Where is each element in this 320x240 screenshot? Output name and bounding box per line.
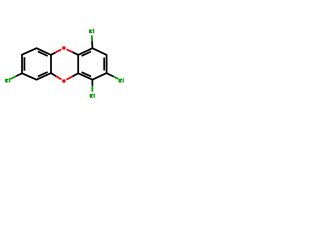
bond C-Cl bottom carbon half [91,80,93,86]
left ring double bond inner line (top-right edge) [38,51,48,56]
right ring double bond inner line (top-left edge) [82,51,91,55]
atom label Cl (right chlorine) [119,78,124,82]
bond C-Cl bottom hetero half [91,86,93,92]
bond C-Cl right hetero half [114,77,119,79]
right ring double bond inner line (right edge) [103,58,105,71]
bond C-O bottom left carbon half [51,73,56,76]
bond C-O top right hetero half [67,49,73,52]
bond C-Cl right carbon half [107,73,114,77]
molecule: tetrachlorodibenzo-p-dioxin structure diagram [0,0,130,130]
left ring double bond inner line (left edge) [23,57,25,70]
bond C-O bottom right hetero half [66,76,72,79]
atom label Cl (left ring chlorine) [5,78,10,82]
atom label O (top oxygen) [62,46,65,49]
bond C-Cl left hetero half [10,76,16,79]
bond C-Cl top carbon half [91,41,93,48]
atom label Cl (bottom chlorine) [90,93,95,97]
left benzene ring outline (bonds C6-C6a-C10a-C9-C8-C7) [22,48,51,79]
atom label O (bottom oxygen) [62,79,65,82]
bond C-O bottom left hetero half [56,76,61,79]
bond C-Cl top hetero half [91,35,93,41]
atom label Cl (top chlorine) [89,29,94,33]
bond C-O top left carbon half [51,53,55,55]
bond C-O bottom right carbon half [72,73,78,76]
bond C-O top left hetero half [55,49,61,52]
bond C-Cl left carbon half [16,73,22,76]
left ring double bond inner line (bottom-right edge) [38,72,48,76]
right ring double bond inner line (bottom-left edge) [82,72,91,76]
right benzene ring outline (bonds C9b-C1-C2-C3-C4-C4a) [78,48,106,79]
bond C-O top right carbon half [72,52,78,55]
